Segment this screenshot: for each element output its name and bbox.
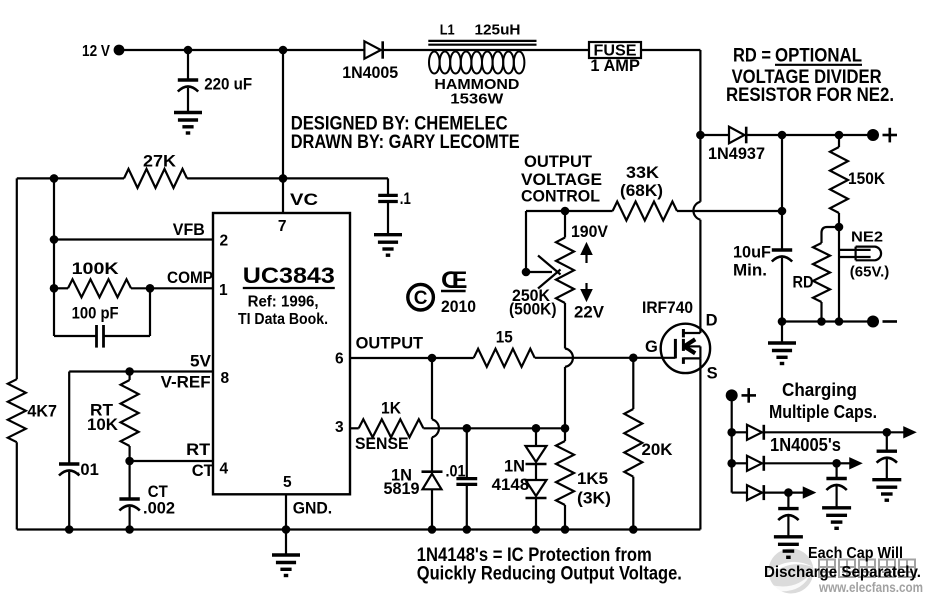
svg-text:2: 2	[220, 233, 229, 250]
svg-text:4148: 4148	[492, 476, 529, 494]
svg-text:CT: CT	[148, 483, 168, 501]
svg-text:SENSE: SENSE	[355, 435, 409, 453]
svg-text:.01: .01	[76, 461, 99, 479]
svg-text:33K: 33K	[626, 164, 659, 182]
svg-text:1N: 1N	[504, 458, 525, 476]
svg-text:150K: 150K	[848, 170, 885, 188]
svg-text:4K7: 4K7	[27, 403, 57, 421]
svg-text:22V: 22V	[574, 304, 604, 322]
svg-text:www.elecfans.com: www.elecfans.com	[818, 580, 923, 595]
svg-text:1N4937: 1N4937	[708, 145, 765, 163]
svg-text:3: 3	[335, 419, 344, 436]
svg-text:GND.: GND.	[293, 500, 333, 518]
svg-text:V-REF: V-REF	[161, 374, 211, 392]
svg-text:1: 1	[219, 282, 228, 299]
svg-text:VFB: VFB	[173, 221, 205, 239]
svg-text:Multiple Caps.: Multiple Caps.	[769, 401, 877, 422]
svg-text:1N4005: 1N4005	[342, 64, 398, 82]
svg-text:C: C	[414, 288, 428, 309]
svg-text:VC: VC	[290, 191, 318, 209]
svg-text:NE2: NE2	[851, 229, 883, 246]
svg-text:190V: 190V	[571, 223, 608, 241]
svg-text:5V: 5V	[190, 352, 211, 370]
svg-text:20K: 20K	[642, 441, 673, 459]
svg-text:Charging: Charging	[782, 379, 857, 400]
svg-text:L1: L1	[440, 21, 455, 38]
svg-text:5819: 5819	[384, 480, 420, 498]
svg-text:8: 8	[221, 370, 230, 387]
svg-text:Min.: Min.	[733, 262, 767, 280]
svg-text:OPTIONAL: OPTIONAL	[775, 46, 862, 67]
svg-text:Each Cap Will: Each Cap Will	[808, 545, 903, 562]
svg-text:.1: .1	[400, 190, 411, 208]
svg-text:CONTROL: CONTROL	[521, 188, 600, 206]
svg-text:1K: 1K	[381, 400, 401, 418]
svg-text:Ref: 1996,: Ref: 1996,	[248, 294, 319, 311]
svg-text:RT: RT	[186, 441, 210, 459]
svg-text:RESISTOR FOR NE2.: RESISTOR FOR NE2.	[726, 85, 894, 106]
svg-text:RD: RD	[793, 274, 814, 292]
svg-text:(3K): (3K)	[577, 490, 611, 508]
svg-text:27K: 27K	[143, 152, 176, 170]
svg-text:1K5: 1K5	[577, 470, 608, 488]
svg-text:2010: 2010	[441, 298, 476, 316]
svg-text:4: 4	[220, 460, 229, 477]
svg-text:.002: .002	[143, 500, 175, 518]
svg-text:1536W: 1536W	[450, 91, 504, 108]
svg-text:1 AMP: 1 AMP	[590, 57, 640, 75]
svg-text:D: D	[706, 312, 718, 330]
svg-text:10uF: 10uF	[733, 244, 771, 262]
svg-text:12 V: 12 V	[82, 43, 110, 60]
svg-text:CT: CT	[192, 462, 214, 480]
svg-text:OUTPUT: OUTPUT	[356, 335, 424, 353]
svg-text:DRAWN BY: GARY LECOMTE: DRAWN BY: GARY LECOMTE	[291, 132, 520, 153]
svg-text:VOLTAGE: VOLTAGE	[521, 171, 602, 189]
svg-text:125uH: 125uH	[475, 21, 521, 38]
svg-text:(65V.): (65V.)	[850, 264, 890, 281]
svg-text:IRF740: IRF740	[642, 299, 693, 317]
svg-text:10K: 10K	[87, 416, 118, 434]
svg-text:S: S	[707, 365, 718, 383]
svg-text:COMP: COMP	[167, 269, 213, 287]
svg-text:Discharge Separately.: Discharge Separately.	[764, 564, 921, 581]
svg-text:Quickly Reducing Output Voltag: Quickly Reducing Output Voltage.	[417, 564, 682, 585]
svg-text:UC3843: UC3843	[243, 263, 335, 288]
svg-text:15: 15	[496, 329, 513, 347]
svg-text:(68K): (68K)	[620, 182, 663, 200]
svg-text:6: 6	[335, 351, 344, 368]
svg-text:.01: .01	[446, 463, 466, 481]
svg-text:G: G	[645, 338, 658, 356]
svg-text:7: 7	[278, 218, 287, 235]
svg-text:OUTPUT: OUTPUT	[524, 153, 592, 171]
svg-text:(500K): (500K)	[509, 301, 557, 319]
svg-text:220 uF: 220 uF	[204, 76, 252, 94]
svg-text:100 pF: 100 pF	[72, 305, 119, 323]
svg-text:5: 5	[283, 474, 292, 491]
svg-text:1N4005's: 1N4005's	[770, 434, 841, 455]
svg-text:TI Data Book.: TI Data Book.	[238, 311, 328, 328]
svg-text:100K: 100K	[72, 260, 119, 278]
svg-text:RD =: RD =	[733, 46, 771, 67]
